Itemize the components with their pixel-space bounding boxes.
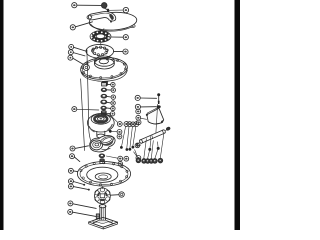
tick junction xyxy=(86,50,88,54)
leader b4 xyxy=(134,152,137,156)
long leader line A xyxy=(87,54,92,143)
pedestal base xyxy=(89,217,118,229)
pin dot c2 xyxy=(126,148,129,151)
callout balloon r4 xyxy=(131,122,136,127)
leader balloon37 xyxy=(73,204,96,209)
leader to balloon 15 xyxy=(109,9,123,11)
leader ring4 xyxy=(107,101,111,104)
pin dot c4 xyxy=(132,146,135,149)
callout balloon row 40e xyxy=(153,159,158,164)
callout balloon s6 xyxy=(110,112,114,116)
bolt dot on housing xyxy=(109,130,112,133)
leader row1 xyxy=(135,150,138,159)
callout balloon m2 xyxy=(117,134,122,139)
axis line flange to joint xyxy=(102,186,104,188)
long leader line B xyxy=(81,79,85,151)
tilt cylinder tube xyxy=(139,129,166,143)
leader balloon8 xyxy=(73,53,85,56)
leader row5 xyxy=(155,142,158,159)
leader row2 xyxy=(144,139,147,159)
pin dot c3 xyxy=(129,148,132,151)
callout balloon row 40c xyxy=(145,159,150,164)
leader balloon7 xyxy=(74,47,86,51)
leader balloon19 xyxy=(74,157,79,162)
leader housing dot xyxy=(112,130,117,132)
leader nut6 xyxy=(106,113,110,115)
leader joint to balloon 35 xyxy=(110,194,118,197)
callout balloon 20 xyxy=(70,146,75,151)
pin dot d1 xyxy=(148,148,151,151)
callout balloon 16 xyxy=(68,184,73,189)
callout balloon r3 xyxy=(127,122,132,127)
callout balloon b3 xyxy=(118,161,122,165)
clamp pin bolt xyxy=(157,93,160,104)
callout balloon 8 xyxy=(68,50,73,55)
leader washer to balloon 10 xyxy=(114,50,124,52)
right group: balloon 45 xyxy=(135,95,140,100)
upper mount housing xyxy=(87,114,114,138)
upper flange plate xyxy=(80,56,128,81)
callout balloon 12 xyxy=(70,25,75,30)
leader balloon28 to stack xyxy=(77,108,99,111)
leader r5 down xyxy=(133,127,136,146)
callout balloon 35 xyxy=(119,192,124,197)
leader row4 xyxy=(151,141,153,159)
leader wire balloon14 to bolt xyxy=(77,4,101,6)
callout balloon s5 xyxy=(111,106,115,110)
scalloped retainer washer xyxy=(86,44,114,58)
nub link xyxy=(165,130,167,131)
callout balloon 18 xyxy=(68,168,73,173)
leader balloon42 to bracket xyxy=(141,118,147,119)
callout balloon s4 xyxy=(111,101,115,105)
ball bearing xyxy=(90,31,111,42)
callout balloon 28 xyxy=(72,107,77,112)
callout balloon c5 xyxy=(135,143,140,148)
cylinder lower sleeve xyxy=(136,143,141,147)
callout balloon m1 xyxy=(117,130,122,135)
border left bar xyxy=(0,0,4,230)
fastener stack: washer 2 xyxy=(101,88,106,92)
callout balloon 13 (dark) xyxy=(101,3,107,9)
fastener stack: washer 5 xyxy=(101,106,106,110)
steering shaft column xyxy=(100,206,106,220)
callout balloon b1 xyxy=(118,156,123,161)
fastener stack: square nut 1 xyxy=(102,82,108,86)
callout balloon 10 xyxy=(123,49,128,54)
leader bearing to balloon 11 xyxy=(111,36,123,38)
callout balloon b4 xyxy=(136,156,141,161)
callout balloon 42 xyxy=(136,115,141,120)
leader balloon17 xyxy=(73,182,85,186)
leader balloon 20 xyxy=(75,146,89,149)
bolt pin on cap xyxy=(107,9,109,12)
bushing cylinder xyxy=(100,159,104,164)
leader balloon45 to pin xyxy=(140,97,156,99)
callout balloon b2 xyxy=(124,156,129,161)
leader balloon16 xyxy=(73,187,89,191)
callout balloon 17 xyxy=(68,179,73,184)
callout balloon 14 xyxy=(72,3,77,8)
leader housing top to balloon row xyxy=(110,115,118,123)
bushing washer above lower flange xyxy=(99,154,105,158)
leader washer5 xyxy=(106,107,110,110)
leader balloon12 to cap xyxy=(75,22,92,27)
callout balloon 41 xyxy=(136,120,141,125)
pin dot c1 xyxy=(120,146,123,149)
shaft collar xyxy=(99,204,106,208)
callout balloon 9 xyxy=(68,55,73,60)
leader balloon9 xyxy=(73,58,83,64)
callout balloon r1 xyxy=(117,122,122,127)
callout balloon 37 xyxy=(68,201,73,206)
callout balloon r5 xyxy=(134,122,139,127)
callout balloon 43 xyxy=(136,109,141,114)
leader nut1 xyxy=(106,83,110,85)
callout balloon row 40f xyxy=(158,158,163,163)
leader row6 xyxy=(160,134,164,158)
shaft clip xyxy=(96,214,99,219)
leader washer3 xyxy=(107,95,111,98)
cap handle strap xyxy=(87,12,116,23)
fastener stack: washer 3 xyxy=(101,94,107,98)
callout balloon s1 xyxy=(111,82,115,86)
steering cap body xyxy=(89,11,137,31)
leader row3 xyxy=(148,140,151,159)
callout balloon 15 xyxy=(123,7,128,12)
callout balloon row 40a xyxy=(136,158,141,163)
steering scroll bracket xyxy=(90,135,115,152)
cylinder end nub xyxy=(166,127,170,131)
centerline cap xyxy=(109,12,111,21)
bracket pivot bushing xyxy=(157,105,161,108)
leader washer2 xyxy=(107,89,111,91)
leader through bracket xyxy=(156,104,158,134)
callout balloon 7 xyxy=(69,44,74,49)
callout balloon 44 xyxy=(135,104,140,109)
leader bushing to balloons xyxy=(106,156,117,158)
leader bushing2 xyxy=(106,162,118,164)
axis line cap to bearing xyxy=(103,29,105,32)
lower flange plate xyxy=(77,162,130,187)
callout balloon s2 xyxy=(111,88,115,92)
leader r3 down xyxy=(127,127,129,149)
callout balloon 19 xyxy=(70,154,75,159)
leader balloon18 xyxy=(73,170,77,173)
leader balloon13 down xyxy=(105,8,108,10)
fastener stack: square nut 6 xyxy=(101,111,106,116)
leader balloon36 xyxy=(73,212,96,216)
axis line bearing to washer xyxy=(100,43,103,45)
pin dot d2 xyxy=(157,147,160,150)
flange hub boss xyxy=(95,56,115,69)
fastener stack: ring 4 xyxy=(101,100,107,104)
callout balloon row 40b xyxy=(142,159,147,164)
border right bar xyxy=(235,0,241,230)
callout balloon r2 xyxy=(124,122,129,127)
leader balloon44 to bushing xyxy=(141,106,156,108)
leader r4 down xyxy=(130,127,133,148)
callout balloon row 40d xyxy=(149,159,154,164)
leader r2 down xyxy=(122,126,126,146)
callout balloon 11 xyxy=(123,35,128,40)
flange left lug xyxy=(83,64,89,70)
clamp bracket wedge xyxy=(146,107,164,124)
universal joint cluster xyxy=(95,188,111,205)
callout balloon s3 xyxy=(111,95,115,99)
callout balloon 36 xyxy=(68,209,73,214)
